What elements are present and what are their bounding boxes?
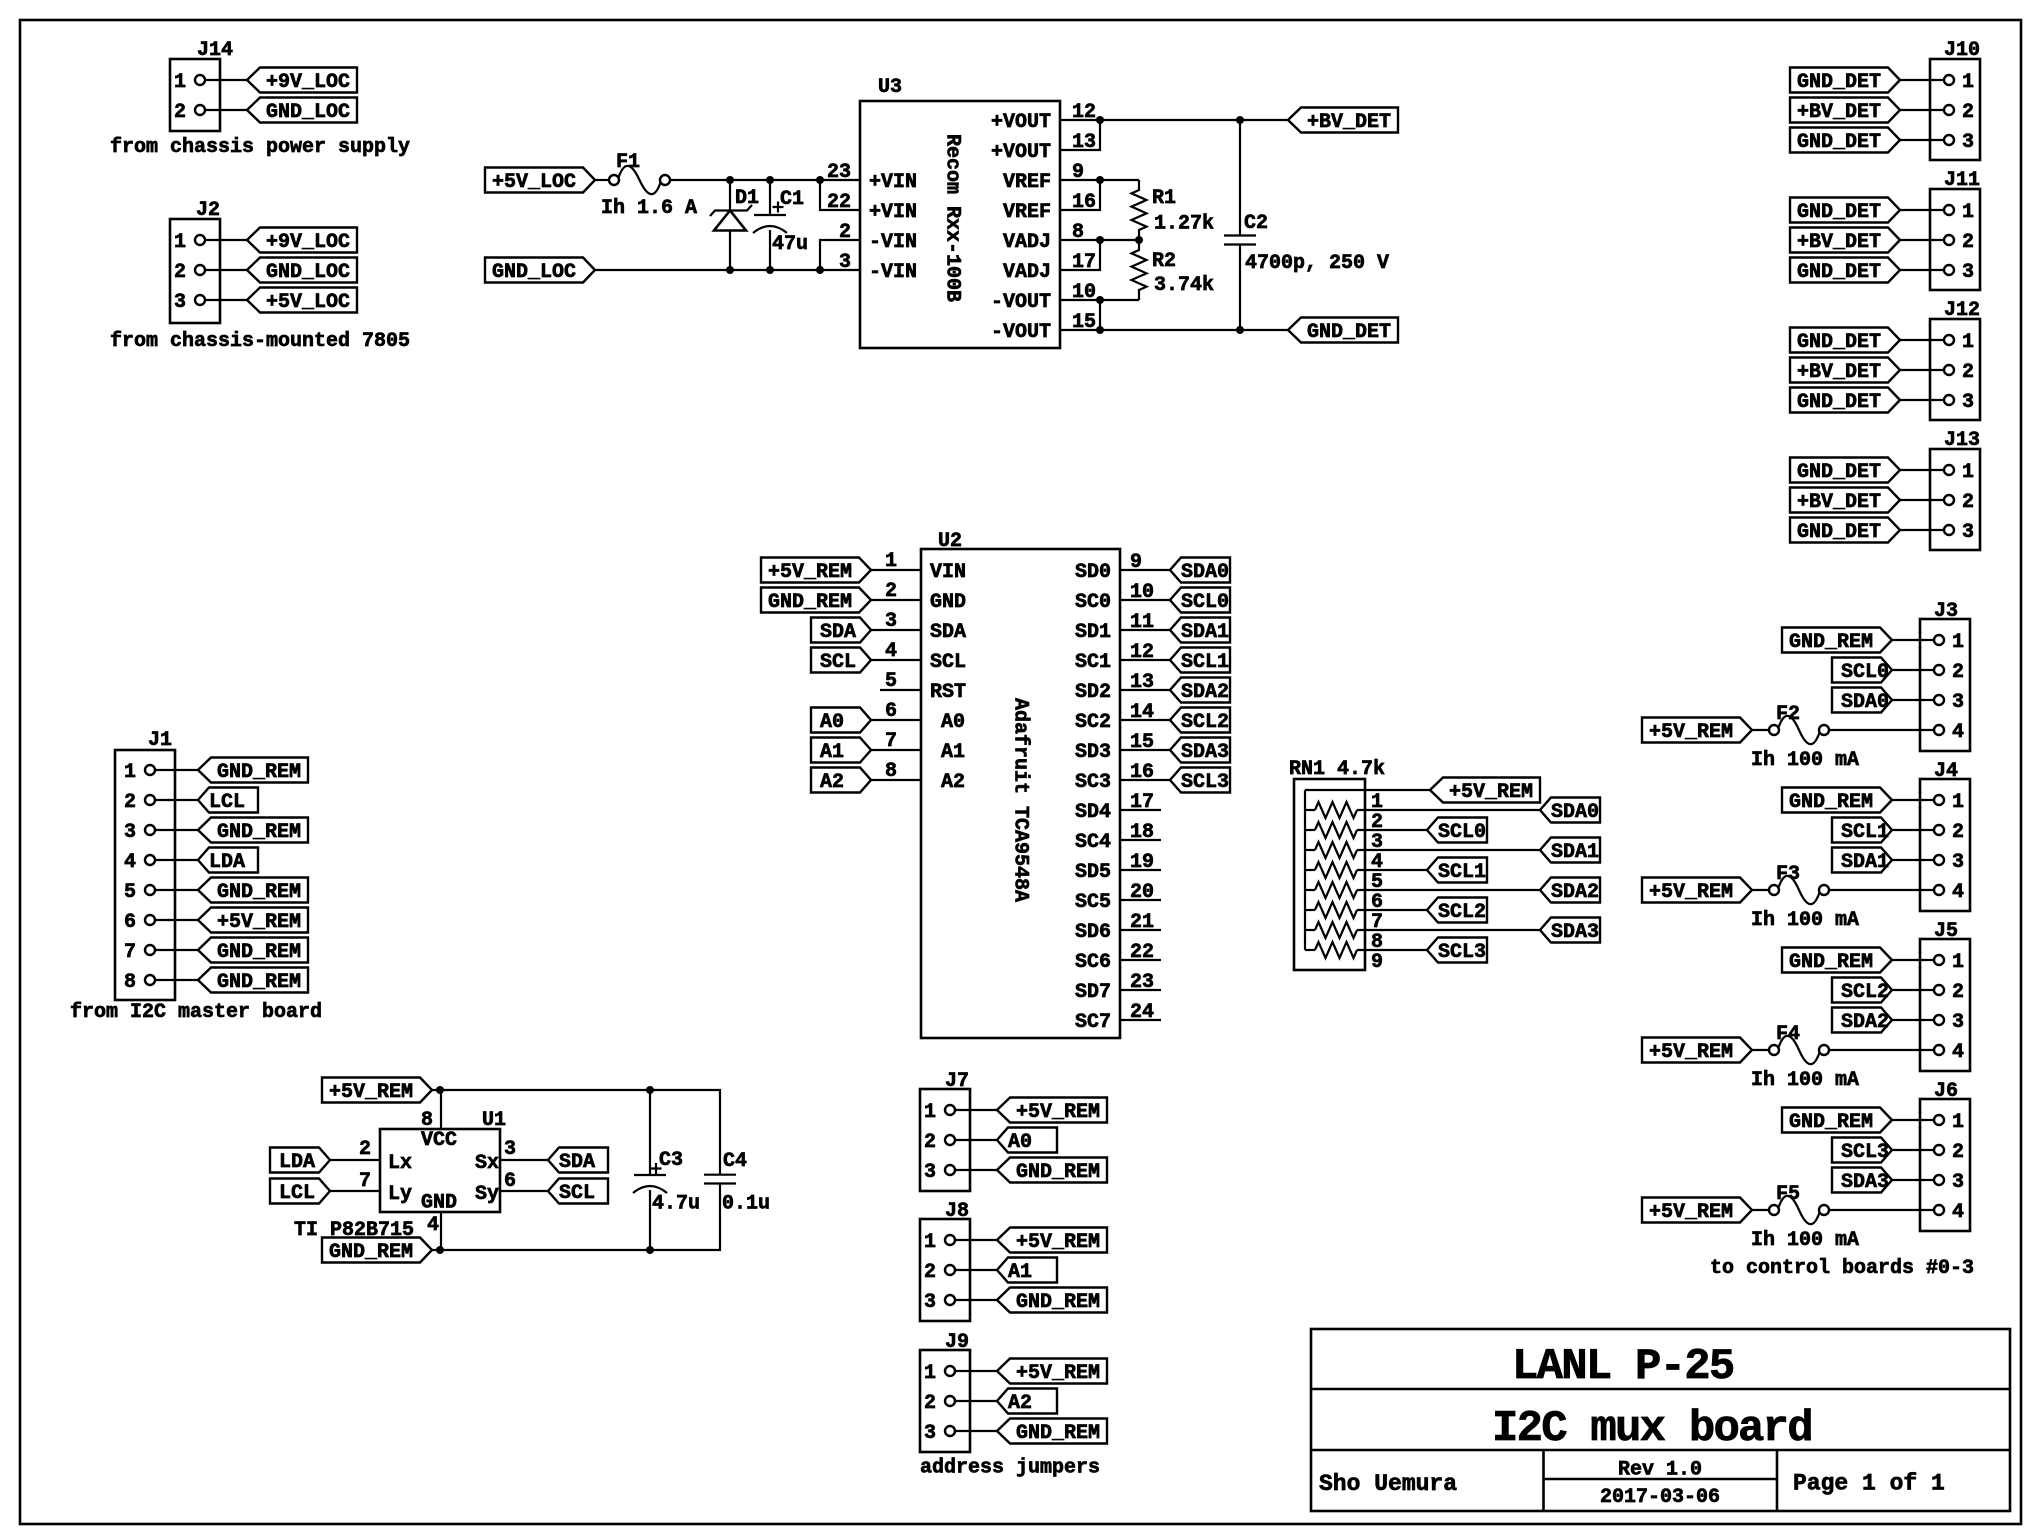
- svg-text:GND_REM: GND_REM: [217, 761, 301, 784]
- svg-text:+5V_REM: +5V_REM: [1016, 1101, 1100, 1124]
- svg-text:SDA: SDA: [820, 621, 856, 644]
- svg-text:F1: F1: [616, 151, 640, 174]
- svg-text:GND_REM: GND_REM: [1016, 1291, 1100, 1314]
- svg-text:A2: A2: [820, 771, 844, 794]
- svg-text:SC7: SC7: [1075, 1011, 1111, 1034]
- svg-text:F3: F3: [1776, 863, 1800, 886]
- svg-text:GND_REM: GND_REM: [1789, 1111, 1873, 1134]
- svg-text:SCL1: SCL1: [1438, 861, 1486, 884]
- svg-text:SDA3: SDA3: [1551, 921, 1599, 944]
- svg-text:C3: C3: [659, 1149, 683, 1172]
- svg-text:SCL2: SCL2: [1438, 901, 1486, 924]
- svg-text:SDA0: SDA0: [1551, 801, 1599, 824]
- svg-text:1: 1: [174, 71, 186, 94]
- svg-text:3.74k: 3.74k: [1154, 274, 1214, 297]
- svg-text:to control boards #0-3: to control boards #0-3: [1710, 1257, 1974, 1280]
- svg-text:2: 2: [1952, 821, 1964, 844]
- svg-text:RST: RST: [930, 681, 966, 704]
- svg-text:VADJ: VADJ: [1003, 261, 1051, 284]
- svg-text:+VOUT: +VOUT: [991, 141, 1051, 164]
- svg-text:GND_DET: GND_DET: [1797, 391, 1881, 414]
- svg-text:C1: C1: [780, 188, 804, 211]
- svg-text:SCL3: SCL3: [1841, 1141, 1889, 1164]
- svg-text:from I2C master board: from I2C master board: [70, 1001, 322, 1024]
- svg-text:Ih 100 mA: Ih 100 mA: [1751, 1069, 1859, 1092]
- svg-text:4: 4: [124, 851, 136, 874]
- svg-text:1: 1: [174, 231, 186, 254]
- svg-text:+VIN: +VIN: [869, 201, 917, 224]
- svg-text:F4: F4: [1776, 1023, 1800, 1046]
- svg-text:3: 3: [839, 251, 851, 274]
- svg-text:1: 1: [1962, 201, 1974, 224]
- svg-text:VIN: VIN: [930, 561, 966, 584]
- svg-text:Page 1 of 1: Page 1 of 1: [1793, 1471, 1945, 1497]
- svg-text:+5V_REM: +5V_REM: [1016, 1362, 1100, 1385]
- svg-text:1: 1: [1952, 951, 1964, 974]
- svg-text:4: 4: [1952, 1041, 1964, 1064]
- svg-text:+BV_DET: +BV_DET: [1797, 361, 1881, 384]
- svg-text:1: 1: [1962, 71, 1974, 94]
- svg-text:J1: J1: [148, 729, 172, 752]
- svg-text:0.1u: 0.1u: [722, 1193, 770, 1216]
- svg-text:3: 3: [504, 1138, 516, 1161]
- svg-text:A1: A1: [941, 741, 965, 764]
- svg-text:GND_DET: GND_DET: [1797, 71, 1881, 94]
- svg-text:+BV_DET: +BV_DET: [1797, 101, 1881, 124]
- svg-text:1: 1: [924, 1362, 936, 1385]
- svg-text:RN1 4.7k: RN1 4.7k: [1289, 758, 1385, 781]
- svg-text:A0: A0: [941, 711, 965, 734]
- svg-text:SCL0: SCL0: [1438, 821, 1486, 844]
- svg-text:F5: F5: [1776, 1183, 1800, 1206]
- svg-text:2: 2: [924, 1392, 936, 1415]
- svg-text:+5V_REM: +5V_REM: [1016, 1231, 1100, 1254]
- svg-text:GND: GND: [930, 591, 966, 614]
- svg-text:GND_REM: GND_REM: [1016, 1161, 1100, 1184]
- svg-text:SDA0: SDA0: [1841, 691, 1889, 714]
- svg-text:4: 4: [1952, 881, 1964, 904]
- svg-text:GND_REM: GND_REM: [217, 941, 301, 964]
- svg-text:GND_LOC: GND_LOC: [492, 261, 576, 284]
- svg-text:SDA0: SDA0: [1181, 561, 1229, 584]
- svg-text:4700p, 250 V: 4700p, 250 V: [1245, 252, 1389, 275]
- svg-text:GND_REM: GND_REM: [1016, 1422, 1100, 1445]
- svg-text:7: 7: [359, 1170, 371, 1193]
- svg-text:VCC: VCC: [421, 1129, 457, 1152]
- svg-text:2: 2: [1962, 101, 1974, 124]
- svg-text:GND_LOC: GND_LOC: [266, 261, 350, 284]
- svg-text:+VOUT: +VOUT: [991, 111, 1051, 134]
- svg-text:Adafruit TCA9548A: Adafruit TCA9548A: [1009, 698, 1032, 902]
- svg-text:GND_REM: GND_REM: [1789, 951, 1873, 974]
- svg-text:SD4: SD4: [1075, 801, 1111, 824]
- svg-text:-VOUT: -VOUT: [991, 291, 1051, 314]
- svg-text:Lx: Lx: [388, 1152, 412, 1175]
- svg-text:2: 2: [924, 1261, 936, 1284]
- svg-text:-VOUT: -VOUT: [991, 321, 1051, 344]
- svg-text:SCL3: SCL3: [1181, 771, 1229, 794]
- svg-text:SDA: SDA: [559, 1151, 595, 1174]
- svg-text:4: 4: [1952, 721, 1964, 744]
- svg-text:SCL: SCL: [930, 651, 966, 674]
- svg-text:+5V_REM: +5V_REM: [329, 1081, 413, 1104]
- svg-text:+9V_LOC: +9V_LOC: [266, 71, 350, 94]
- svg-text:2: 2: [1962, 361, 1974, 384]
- svg-text:3: 3: [1952, 851, 1964, 874]
- svg-text:47u: 47u: [772, 233, 808, 256]
- svg-text:SDA2: SDA2: [1181, 681, 1229, 704]
- svg-text:23: 23: [827, 161, 851, 184]
- svg-text:C4: C4: [723, 1150, 747, 1173]
- svg-text:3: 3: [1962, 261, 1974, 284]
- svg-text:1: 1: [1962, 461, 1974, 484]
- svg-text:GND_DET: GND_DET: [1797, 461, 1881, 484]
- svg-text:3: 3: [174, 291, 186, 314]
- svg-text:Ih 100 mA: Ih 100 mA: [1751, 1229, 1859, 1252]
- svg-text:+5V_REM: +5V_REM: [1449, 781, 1533, 804]
- svg-text:+BV_DET: +BV_DET: [1797, 491, 1881, 514]
- svg-text:SCL3: SCL3: [1438, 941, 1486, 964]
- svg-text:SCL1: SCL1: [1841, 821, 1889, 844]
- svg-text:3: 3: [1962, 521, 1974, 544]
- svg-text:SD2: SD2: [1075, 681, 1111, 704]
- svg-text:GND_DET: GND_DET: [1797, 521, 1881, 544]
- svg-text:1: 1: [1952, 791, 1964, 814]
- svg-text:5: 5: [124, 881, 136, 904]
- svg-text:GND_LOC: GND_LOC: [266, 101, 350, 124]
- svg-text:+5V_LOC: +5V_LOC: [492, 171, 576, 194]
- svg-text:SD7: SD7: [1075, 981, 1111, 1004]
- svg-text:1.27k: 1.27k: [1154, 213, 1214, 236]
- svg-text:1: 1: [1962, 331, 1974, 354]
- svg-text:8: 8: [124, 971, 136, 994]
- svg-text:GND_DET: GND_DET: [1307, 321, 1391, 344]
- svg-text:LCL: LCL: [209, 791, 245, 814]
- svg-text:Rev 1.0: Rev 1.0: [1618, 1459, 1702, 1482]
- svg-text:VREF: VREF: [1003, 171, 1051, 194]
- svg-text:Sx: Sx: [475, 1152, 499, 1175]
- svg-text:SDA1: SDA1: [1841, 851, 1889, 874]
- svg-text:Ly: Ly: [388, 1183, 412, 1206]
- svg-text:SCL0: SCL0: [1181, 591, 1229, 614]
- svg-text:LDA: LDA: [279, 1151, 315, 1174]
- svg-text:1: 1: [124, 761, 136, 784]
- svg-text:SCL2: SCL2: [1181, 711, 1229, 734]
- svg-text:A0: A0: [820, 711, 844, 734]
- svg-text:A1: A1: [1008, 1261, 1032, 1284]
- svg-text:3: 3: [1962, 391, 1974, 414]
- svg-text:+5V_REM: +5V_REM: [1649, 1201, 1733, 1224]
- svg-text:+VIN: +VIN: [869, 171, 917, 194]
- svg-text:F2: F2: [1776, 703, 1800, 726]
- svg-text:3: 3: [1962, 131, 1974, 154]
- svg-text:SC2: SC2: [1075, 711, 1111, 734]
- svg-text:2017-03-06: 2017-03-06: [1600, 1486, 1720, 1509]
- svg-text:R2: R2: [1152, 250, 1176, 273]
- svg-text:6: 6: [504, 1170, 516, 1193]
- svg-text:D1: D1: [735, 187, 759, 210]
- svg-text:+BV_DET: +BV_DET: [1307, 111, 1391, 134]
- svg-text:2: 2: [1962, 231, 1974, 254]
- svg-text:from chassis-mounted 7805: from chassis-mounted 7805: [110, 330, 410, 353]
- svg-text:+5V_REM: +5V_REM: [1649, 881, 1733, 904]
- svg-text:6: 6: [124, 911, 136, 934]
- svg-text:4: 4: [1952, 1201, 1964, 1224]
- svg-text:GND_REM: GND_REM: [217, 821, 301, 844]
- svg-text:SDA1: SDA1: [1181, 621, 1229, 644]
- svg-text:Sy: Sy: [475, 1183, 499, 1206]
- svg-text:address jumpers: address jumpers: [920, 1457, 1100, 1480]
- svg-text:7: 7: [124, 941, 136, 964]
- svg-text:SCL1: SCL1: [1181, 651, 1229, 674]
- svg-text:GND: GND: [421, 1192, 457, 1215]
- svg-text:SDA2: SDA2: [1841, 1011, 1889, 1034]
- svg-text:Ih 100 mA: Ih 100 mA: [1751, 909, 1859, 932]
- svg-text:Ih 100 mA: Ih 100 mA: [1751, 749, 1859, 772]
- svg-text:9: 9: [1371, 951, 1383, 974]
- svg-text:SDA1: SDA1: [1551, 841, 1599, 864]
- svg-text:4: 4: [427, 1214, 439, 1237]
- svg-text:2: 2: [174, 101, 186, 124]
- svg-text:3: 3: [1952, 1171, 1964, 1194]
- svg-text:VADJ: VADJ: [1003, 231, 1051, 254]
- svg-text:R1: R1: [1152, 187, 1176, 210]
- svg-text:SD3: SD3: [1075, 741, 1111, 764]
- svg-text:GND_REM: GND_REM: [768, 591, 852, 614]
- svg-text:LDA: LDA: [209, 851, 245, 874]
- svg-text:+5V_REM: +5V_REM: [1649, 721, 1733, 744]
- svg-text:3: 3: [924, 1291, 936, 1314]
- svg-text:GND_REM: GND_REM: [1789, 791, 1873, 814]
- svg-text:SDA: SDA: [930, 621, 966, 644]
- svg-text:-VIN: -VIN: [869, 231, 917, 254]
- svg-text:22: 22: [827, 191, 851, 214]
- svg-text:C2: C2: [1244, 212, 1268, 235]
- svg-text:+5V_REM: +5V_REM: [768, 561, 852, 584]
- svg-text:SD1: SD1: [1075, 621, 1111, 644]
- svg-text:A2: A2: [1008, 1392, 1032, 1415]
- svg-text:GND_DET: GND_DET: [1797, 261, 1881, 284]
- svg-text:-VIN: -VIN: [869, 261, 917, 284]
- svg-text:SC5: SC5: [1075, 891, 1111, 914]
- svg-text:Ih 1.6 A: Ih 1.6 A: [601, 197, 697, 220]
- svg-text:2: 2: [124, 791, 136, 814]
- svg-text:SC0: SC0: [1075, 591, 1111, 614]
- svg-text:GND_DET: GND_DET: [1797, 131, 1881, 154]
- svg-text:SC1: SC1: [1075, 651, 1111, 674]
- svg-text:3: 3: [1952, 1011, 1964, 1034]
- svg-text:2: 2: [174, 261, 186, 284]
- svg-text:GND_REM: GND_REM: [217, 971, 301, 994]
- svg-text:VREF: VREF: [1003, 201, 1051, 224]
- svg-text:1: 1: [924, 1101, 936, 1124]
- svg-text:U3: U3: [878, 76, 902, 99]
- svg-text:2: 2: [1952, 1141, 1964, 1164]
- svg-text:2: 2: [839, 221, 851, 244]
- svg-text:LCL: LCL: [279, 1182, 315, 1205]
- svg-text:3: 3: [124, 821, 136, 844]
- svg-text:2: 2: [1952, 661, 1964, 684]
- svg-text:+BV_DET: +BV_DET: [1797, 231, 1881, 254]
- svg-text:3: 3: [924, 1422, 936, 1445]
- svg-text:I2C mux board: I2C mux board: [1492, 1404, 1812, 1454]
- svg-text:GND_DET: GND_DET: [1797, 331, 1881, 354]
- svg-text:3: 3: [1952, 691, 1964, 714]
- svg-text:SCL0: SCL0: [1841, 661, 1889, 684]
- svg-text:+9V_LOC: +9V_LOC: [266, 231, 350, 254]
- svg-text:SDA3: SDA3: [1181, 741, 1229, 764]
- svg-text:+5V_REM: +5V_REM: [217, 911, 301, 934]
- svg-text:SC6: SC6: [1075, 951, 1111, 974]
- svg-text:SD5: SD5: [1075, 861, 1111, 884]
- svg-text:A0: A0: [1008, 1131, 1032, 1154]
- svg-text:3: 3: [924, 1161, 936, 1184]
- svg-text:SD0: SD0: [1075, 561, 1111, 584]
- svg-text:GND_REM: GND_REM: [1789, 631, 1873, 654]
- svg-text:SDA3: SDA3: [1841, 1171, 1889, 1194]
- svg-text:2: 2: [1952, 981, 1964, 1004]
- svg-text:SDA2: SDA2: [1551, 881, 1599, 904]
- svg-text:Sho Uemura: Sho Uemura: [1319, 1471, 1457, 1497]
- svg-text:SCL2: SCL2: [1841, 981, 1889, 1004]
- svg-text:LANL P-25: LANL P-25: [1512, 1342, 1734, 1392]
- svg-text:SC4: SC4: [1075, 831, 1111, 854]
- svg-text:GND_REM: GND_REM: [217, 881, 301, 904]
- svg-text:+5V_LOC: +5V_LOC: [266, 291, 350, 314]
- svg-text:from chassis power supply: from chassis power supply: [110, 136, 410, 159]
- svg-text:GND_DET: GND_DET: [1797, 201, 1881, 224]
- svg-text:SD6: SD6: [1075, 921, 1111, 944]
- svg-text:1: 1: [924, 1231, 936, 1254]
- svg-text:2: 2: [924, 1131, 936, 1154]
- svg-text:A1: A1: [820, 741, 844, 764]
- svg-text:SC3: SC3: [1075, 771, 1111, 794]
- svg-text:+5V_REM: +5V_REM: [1649, 1041, 1733, 1064]
- svg-text:SCL: SCL: [820, 651, 856, 674]
- svg-text:Recom Rxx-100B: Recom Rxx-100B: [941, 134, 964, 302]
- svg-text:GND_REM: GND_REM: [329, 1241, 413, 1264]
- svg-text:2: 2: [1962, 491, 1974, 514]
- svg-text:1: 1: [1952, 631, 1964, 654]
- svg-text:SCL: SCL: [559, 1182, 595, 1205]
- svg-text:A2: A2: [941, 771, 965, 794]
- svg-text:2: 2: [359, 1138, 371, 1161]
- svg-text:1: 1: [1952, 1111, 1964, 1134]
- svg-text:4.7u: 4.7u: [652, 1193, 700, 1216]
